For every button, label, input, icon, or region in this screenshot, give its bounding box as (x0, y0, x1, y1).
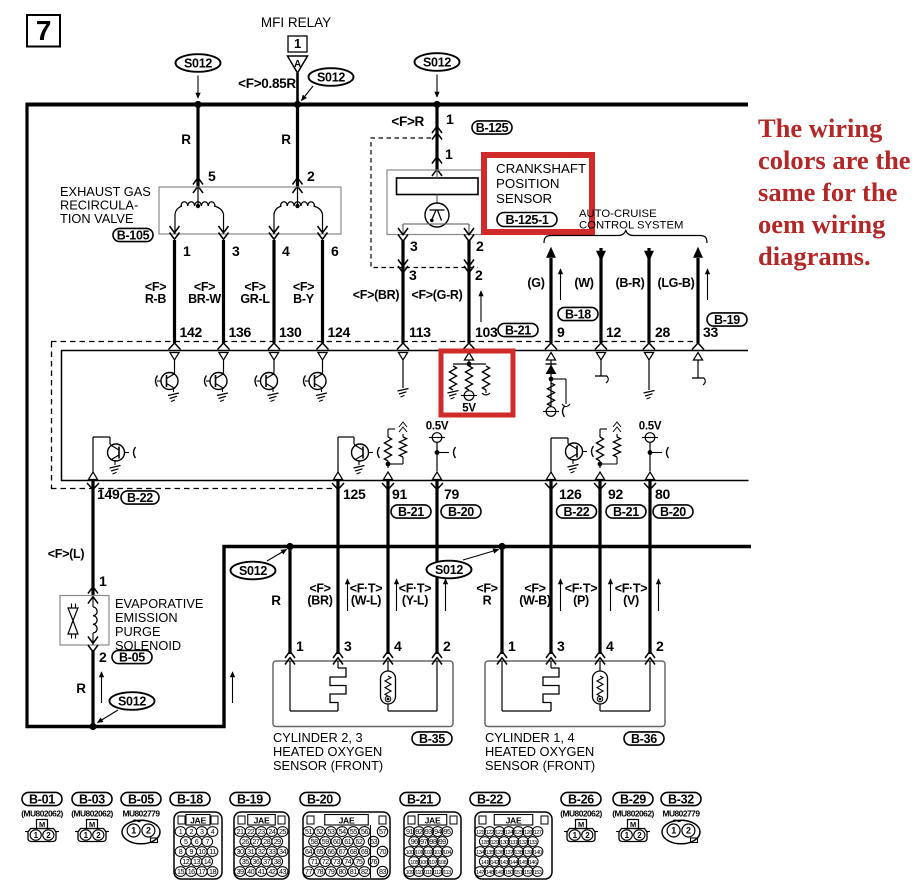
ECU pin 149 exit fork (87, 483, 99, 490)
heater element in B-35 (330, 661, 346, 711)
svg-text:S012: S012 (317, 70, 345, 84)
svg-text:(MU802062): (MU802062) (21, 809, 63, 819)
pin label 12 (606, 324, 621, 340)
EGR valve box (159, 187, 341, 234)
node junction bus-CKP (433, 101, 440, 108)
svg-text:52: 52 (316, 827, 323, 836)
svg-text:138: 138 (514, 850, 522, 856)
svg-text:1: 1 (508, 638, 516, 654)
svg-text:103: 103 (475, 324, 498, 340)
wire pin1 to heater in B-35 (290, 661, 338, 711)
svg-text:55: 55 (350, 827, 357, 836)
ECU pin 125 exit fork (332, 483, 344, 490)
svg-text:143: 143 (500, 860, 508, 866)
connector B-36 (624, 732, 664, 746)
node junction bus-relay (294, 101, 301, 108)
heater element in B-36 (543, 661, 559, 711)
svg-text:B-125: B-125 (476, 121, 509, 135)
connector B-22 pinout (470, 792, 552, 879)
svg-text:144: 144 (510, 860, 518, 866)
svg-text:2: 2 (476, 238, 484, 254)
oxygen sensor box B-36 (485, 661, 665, 727)
svg-text:B-01: B-01 (29, 792, 55, 806)
svg-text:4: 4 (394, 638, 402, 654)
svg-text:41: 41 (258, 867, 265, 876)
sensor ground bus wire (223, 545, 752, 548)
svg-text:B-29: B-29 (620, 792, 646, 806)
svg-text:130: 130 (279, 324, 302, 340)
connector B-18 pinout (170, 792, 222, 879)
svg-text:149: 149 (97, 486, 120, 502)
EGR pin 3 (219, 226, 241, 259)
svg-text:CRANKSHAFT: CRANKSHAFT (496, 161, 586, 176)
svg-text:145: 145 (519, 860, 527, 866)
connector B-125 crossing (432, 111, 454, 140)
purge solenoid valve symbol (68, 604, 78, 639)
svg-text:65: 65 (316, 847, 323, 856)
wire B-Y EGR to ECU pin 124 (293, 240, 351, 343)
svg-text:100: 100 (406, 850, 414, 856)
svg-text:26: 26 (242, 837, 249, 846)
svg-text:1: 1 (179, 827, 183, 836)
svg-text:57: 57 (379, 827, 386, 836)
svg-text:12: 12 (606, 324, 621, 340)
svg-text:<F>(BR): <F>(BR) (353, 288, 400, 302)
svg-text:136: 136 (229, 324, 252, 340)
svg-text:3: 3 (200, 827, 204, 836)
svg-text:2: 2 (307, 168, 315, 184)
svg-text:B-26: B-26 (568, 792, 594, 806)
resistor divider on pin 92 (596, 422, 621, 468)
transistor Q1 in ECU (156, 360, 180, 402)
svg-text:53: 53 (327, 827, 334, 836)
svg-text:16: 16 (188, 867, 195, 876)
EGR pin 5 (193, 168, 216, 193)
ECU pin 79 exit triangle (432, 472, 441, 480)
svg-text:130: 130 (500, 840, 508, 846)
ECU pin 124 entry (317, 343, 329, 360)
svg-text:122: 122 (486, 830, 494, 836)
svg-text:126: 126 (559, 486, 582, 502)
sensor element in B-36 (593, 661, 608, 704)
ECU pin 92 exit fork (594, 483, 606, 490)
connector B-05 pinout (121, 792, 161, 844)
CKP sensor symbol (425, 203, 449, 227)
wire label F 0.85R (238, 76, 296, 91)
svg-text:0.5V: 0.5V (426, 421, 449, 433)
purge solenoid pin 1 entry (88, 587, 98, 604)
svg-text:28: 28 (263, 837, 270, 846)
svg-text:(P): (P) (573, 594, 589, 608)
ECU pin 126 exit fork (545, 483, 557, 490)
svg-text:JAE: JAE (254, 816, 270, 826)
transistor Q7 output to pin 126 (551, 438, 594, 473)
ECU pin 136 entry (218, 343, 230, 360)
svg-text:93: 93 (425, 827, 432, 836)
svg-text:77: 77 (305, 867, 312, 876)
svg-text:82: 82 (361, 867, 368, 876)
svg-text:31: 31 (247, 847, 254, 856)
svg-text:SENSOR: SENSOR (496, 191, 552, 206)
ECU pin 79 exit fork (431, 483, 443, 490)
svg-text:34: 34 (279, 847, 286, 856)
svg-text:(LG-B): (LG-B) (657, 276, 694, 290)
svg-text:4: 4 (282, 243, 290, 259)
svg-text:30: 30 (237, 847, 244, 856)
contact on ECU pin 12 (595, 360, 608, 383)
EGR pin 1 (170, 226, 192, 259)
svg-text:78: 78 (316, 867, 323, 876)
svg-text:5V: 5V (462, 403, 476, 415)
svg-text:R: R (181, 132, 191, 147)
svg-text:R: R (76, 681, 86, 696)
svg-text:7: 7 (205, 837, 209, 846)
wire R-B EGR to ECU pin 142 (145, 240, 203, 343)
svg-text:69: 69 (361, 847, 368, 856)
svg-text:JAE: JAE (425, 816, 441, 826)
svg-text:131: 131 (510, 840, 518, 846)
EXHAUST GAS RECIRCULATION VALVE label (60, 184, 151, 226)
svg-text:124: 124 (505, 830, 513, 836)
svg-text:B-05: B-05 (128, 792, 154, 806)
svg-text:51: 51 (305, 827, 312, 836)
wire from MFI relay to bus (296, 73, 299, 104)
svg-text:33: 33 (703, 324, 718, 340)
auto-cruise brace (544, 231, 707, 244)
svg-text:83: 83 (379, 867, 386, 876)
svg-text:18: 18 (209, 867, 216, 876)
connector B-21 pinout (400, 792, 461, 879)
svg-text:<F>R: <F>R (391, 114, 424, 129)
svg-text:1: 1 (446, 111, 454, 127)
left frame wire (25, 103, 28, 728)
svg-text:39: 39 (237, 867, 244, 876)
svg-text:JAE: JAE (339, 816, 355, 826)
svg-text:109: 109 (406, 870, 414, 876)
node purge ground junction (89, 723, 96, 730)
red highlight box crankshaft sensor (484, 155, 592, 232)
svg-text:B-18: B-18 (565, 307, 591, 321)
connector B-32 pinout (661, 792, 701, 844)
svg-text:151: 151 (514, 870, 522, 876)
svg-text:137: 137 (505, 850, 513, 856)
svg-text:1: 1 (183, 243, 191, 259)
wire F-T P ECU pin 92 to B-36 pin 4 (565, 481, 613, 654)
B-35 pin entries (285, 638, 451, 665)
node junction B-36 ground (498, 543, 505, 550)
svg-text:CYLINDER 2, 3: CYLINDER 2, 3 (273, 730, 363, 745)
svg-text:(MU802062): (MU802062) (560, 809, 602, 819)
svg-text:139: 139 (524, 850, 532, 856)
svg-text:126: 126 (524, 830, 532, 836)
connector B-105 (113, 228, 153, 242)
ECU pin 12 entry (595, 343, 607, 360)
svg-text:68: 68 (350, 847, 357, 856)
ECU pin 91 exit triangle (383, 472, 392, 480)
svg-text:42: 42 (268, 867, 275, 876)
svg-text:43: 43 (279, 867, 286, 876)
wire F BR ECU pin 125 to B-35 pin 3 (307, 481, 338, 654)
svg-text:CONTROL SYSTEM: CONTROL SYSTEM (579, 220, 683, 232)
splice S012 right oxygen sensor (427, 549, 499, 579)
svg-text:63: 63 (370, 837, 377, 846)
svg-text:125: 125 (343, 486, 366, 502)
svg-text:105: 105 (410, 860, 418, 866)
svg-text:MU802779: MU802779 (663, 809, 701, 819)
svg-text:2: 2 (99, 649, 107, 665)
svg-text:SENSOR (FRONT): SENSOR (FRONT) (273, 758, 383, 773)
wire F W-B ECU pin 126 to B-36 pin 3 (519, 481, 562, 654)
connector B-05 (112, 650, 152, 664)
wire R to EGR pin 2 (281, 104, 297, 187)
MFI relay pin box 1 (288, 36, 307, 52)
svg-text:153: 153 (534, 870, 542, 876)
svg-text:71: 71 (311, 857, 318, 866)
svg-text:76: 76 (370, 857, 377, 866)
svg-text:106: 106 (420, 860, 428, 866)
svg-text:B-20: B-20 (307, 792, 333, 806)
svg-text:67: 67 (339, 847, 346, 856)
svg-text:S012: S012 (184, 56, 212, 70)
svg-text:1: 1 (131, 826, 136, 836)
connector B-03 pinout (71, 792, 113, 841)
pin label 125 (343, 486, 366, 502)
svg-text:147: 147 (476, 870, 484, 876)
ECU pin 149 exit triangle (88, 472, 97, 480)
svg-text:74: 74 (344, 857, 351, 866)
ECU inner border (61, 350, 749, 481)
svg-text:(G): (G) (527, 276, 544, 290)
transistor Q6 output to pin 125 (338, 437, 380, 474)
svg-text:8: 8 (179, 847, 183, 856)
svg-text:111: 111 (425, 870, 432, 876)
svg-text:A: A (294, 59, 301, 70)
svg-text:25: 25 (279, 827, 286, 836)
svg-text:HEATED OXYGEN: HEATED OXYGEN (273, 744, 382, 759)
svg-text:B-19: B-19 (237, 792, 263, 806)
CKP pin 3 (398, 228, 418, 254)
svg-text:108: 108 (438, 860, 446, 866)
connector B-01 pinout (21, 792, 63, 841)
svg-text:5: 5 (184, 837, 188, 846)
pin label 92 and connector B-21 (606, 486, 646, 519)
svg-text:142: 142 (180, 324, 203, 340)
wire sensor element to pin2 in B-35 (388, 661, 437, 711)
svg-text:3: 3 (410, 238, 418, 254)
svg-text:13: 13 (193, 857, 200, 866)
svg-text:S012: S012 (435, 563, 463, 577)
svg-text:6: 6 (331, 243, 339, 259)
purge solenoid coil (93, 596, 97, 645)
svg-text:80: 80 (339, 867, 346, 876)
svg-text:EMISSION: EMISSION (115, 610, 178, 625)
svg-text:150: 150 (505, 870, 513, 876)
B-36 pin entries (497, 638, 664, 665)
svg-text:96: 96 (411, 837, 418, 846)
svg-text:2: 2 (656, 638, 664, 654)
connector B-125 (472, 121, 512, 135)
svg-text:(W): (W) (574, 276, 593, 290)
wire GR-L EGR to ECU pin 130 (240, 240, 302, 343)
svg-text:1: 1 (294, 36, 301, 51)
svg-text:98: 98 (429, 837, 436, 846)
svg-text:S012: S012 (423, 55, 451, 69)
svg-text:38: 38 (274, 857, 281, 866)
svg-text:123: 123 (495, 830, 503, 836)
svg-text:EVAPORATIVE: EVAPORATIVE (115, 596, 203, 611)
svg-text:4: 4 (211, 827, 215, 836)
ECU pin 103 entry (463, 343, 475, 360)
splice S012 purge (98, 692, 155, 722)
wire F L ECU pin 149 to purge solenoid (48, 481, 107, 596)
oxygen sensor box B-35 (273, 661, 453, 727)
CKP pin 1 entry (432, 146, 453, 176)
svg-text:B-22: B-22 (127, 491, 153, 505)
svg-text:92: 92 (415, 827, 422, 836)
svg-text:9: 9 (557, 324, 565, 340)
AUTO-CRUISE CONTROL SYSTEM label (579, 208, 683, 232)
svg-text:135: 135 (486, 850, 494, 856)
EGR pin 2 (293, 168, 316, 193)
svg-text:3: 3 (232, 243, 240, 259)
CYLINDER 2, 3 HEATED OXYGEN SENSOR label (273, 730, 383, 773)
svg-text:62: 62 (355, 837, 362, 846)
svg-text:113: 113 (443, 870, 451, 876)
svg-text:1: 1 (445, 146, 453, 162)
pin label 126 and connector B-22 (557, 486, 597, 519)
ECU pin 80 exit fork (644, 483, 656, 490)
ECU dashed border (51, 342, 698, 489)
svg-text:91: 91 (406, 827, 413, 836)
MFI relay terminal A triangle (288, 56, 308, 73)
svg-text:10: 10 (198, 847, 205, 856)
svg-text:127: 127 (534, 830, 542, 836)
connector B-18 (558, 307, 598, 321)
svg-text:40: 40 (247, 867, 254, 876)
svg-text:4: 4 (606, 638, 614, 654)
wire R ground bus to B-36 pin 1 (476, 547, 502, 655)
wire R purge solenoid to ground bus (76, 651, 103, 727)
svg-text:36: 36 (252, 857, 259, 866)
middle riser wire (222, 545, 225, 728)
svg-text:(W-L): (W-L) (351, 594, 381, 608)
svg-text:(BR): (BR) (307, 594, 332, 608)
wire sensor element to pin2 in B-36 (600, 661, 650, 711)
svg-text:BR-W: BR-W (188, 292, 221, 306)
CKP internal wires (403, 224, 469, 235)
svg-text:(B-R): (B-R) (615, 276, 644, 290)
svg-text:94: 94 (434, 827, 441, 836)
sensor element in B-35 (381, 661, 396, 704)
svg-text:141: 141 (481, 860, 489, 866)
pin label 9 (557, 324, 565, 340)
svg-text:M: M (89, 820, 95, 829)
svg-text:97: 97 (420, 837, 427, 846)
ECU pin 33 entry (692, 343, 704, 360)
svg-text:B-21: B-21 (613, 505, 639, 519)
connector B-29 pinout (612, 792, 654, 841)
wire F BR CKP to ECU pin 113 (353, 240, 431, 343)
svg-text:11: 11 (209, 847, 216, 856)
svg-text:72: 72 (322, 857, 329, 866)
svg-text:132: 132 (519, 840, 527, 846)
svg-text:7: 7 (36, 15, 51, 46)
ground on ECU pin 28 (644, 360, 655, 399)
svg-text:B-21: B-21 (398, 505, 424, 519)
svg-text:22: 22 (247, 827, 254, 836)
0.5V source on pin 79 (426, 421, 456, 472)
EVAPORATIVE EMISSION PURGE SOLENOID label (115, 596, 203, 653)
splice S012 top-left (176, 54, 221, 98)
svg-text:1: 1 (99, 573, 107, 589)
svg-text:14: 14 (204, 857, 211, 866)
connector B-21 top (498, 323, 538, 337)
svg-text:R: R (281, 132, 291, 147)
node junction bus-EGR1 (194, 101, 201, 108)
ECU pin 130 entry (268, 343, 280, 360)
svg-text:(Y-L): (Y-L) (402, 594, 428, 608)
wire F-T V ECU pin 80 to B-36 pin 2 (615, 481, 661, 654)
svg-text:R: R (271, 593, 281, 608)
wire BR-W EGR to ECU pin 136 (188, 240, 251, 343)
CKP pin 2 (464, 228, 484, 254)
svg-text:134: 134 (476, 850, 484, 856)
svg-text:3: 3 (557, 638, 565, 654)
svg-text:133: 133 (529, 840, 537, 846)
wire R ground bus to B-35 pin 1 (271, 547, 290, 655)
svg-text:2: 2 (443, 638, 451, 654)
svg-text:SENSOR (FRONT): SENSOR (FRONT) (485, 758, 595, 773)
wire F-T Y-L ECU pin 79 to B-35 pin 2 (394, 481, 447, 654)
svg-text:CYLINDER 1, 4: CYLINDER 1, 4 (485, 730, 575, 745)
splice S012 top-right (415, 53, 460, 97)
pin label 79 and connector B-20 (441, 486, 481, 519)
svg-text:AUTO-CRUISE: AUTO-CRUISE (579, 208, 657, 220)
wire F-T W-L ECU pin 91 to B-35 pin 4 (345, 481, 388, 654)
svg-text:(V): (V) (623, 594, 639, 608)
svg-text:92: 92 (608, 486, 623, 502)
transistor Q5 output to pin 149 (93, 437, 136, 474)
pin label 80 and connector B-20 (653, 486, 693, 519)
red highlight box 5V circuit (441, 351, 513, 415)
svg-text:33: 33 (268, 847, 275, 856)
svg-text:124: 124 (328, 324, 351, 340)
pin label 28 (655, 324, 670, 340)
resistor divider on pin 91 (384, 422, 407, 468)
svg-text:2: 2 (475, 267, 483, 283)
svg-text:R: R (483, 594, 492, 608)
svg-text:1: 1 (296, 638, 304, 654)
svg-text:<F>0.85R: <F>0.85R (238, 76, 296, 91)
svg-text:B-22: B-22 (564, 505, 590, 519)
ECU pin 113 ground (398, 360, 409, 397)
svg-text:B-35: B-35 (419, 732, 445, 746)
svg-text:PURGE: PURGE (115, 624, 161, 639)
svg-text:24: 24 (268, 827, 275, 836)
connector B-26 pinout (560, 792, 602, 841)
EGR solenoid coil L1 (175, 187, 224, 234)
svg-text:101: 101 (415, 850, 423, 856)
svg-text:113: 113 (409, 324, 431, 340)
svg-text:<F>(G-R): <F>(G-R) (411, 288, 462, 302)
direction arrow mid riser (230, 672, 234, 703)
connector B-35 (412, 732, 452, 746)
svg-text:B-03: B-03 (79, 792, 105, 806)
svg-text:81: 81 (350, 867, 357, 876)
svg-text:64: 64 (305, 847, 312, 856)
wire pin1 to heater in B-36 (502, 661, 551, 711)
pin label 91 and connector B-21 (391, 486, 431, 519)
